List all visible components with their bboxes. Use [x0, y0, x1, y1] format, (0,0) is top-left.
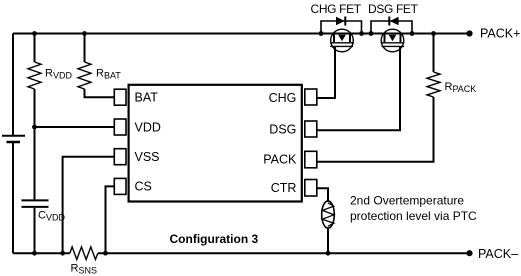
battery BT1 short plate	[7, 141, 21, 144]
diode D2 loop (DSG FET body diode)	[371, 21, 412, 34]
svg-text:CTR: CTR	[271, 181, 297, 195]
wire VDD pin	[35, 126, 115, 128]
wire CTR pin to PTC	[317, 188, 328, 201]
wire RVDD top lead	[34, 34, 36, 63]
wire left battery branch upper	[12, 34, 14, 136]
svg-text:CS: CS	[135, 180, 152, 194]
transistor Q1 CHG FET circle	[331, 29, 354, 52]
transistor Q1 substrate arrow	[338, 35, 346, 41]
wire bottom rail left of RSNS	[13, 252, 70, 254]
pin box VSS	[114, 149, 126, 165]
wire bottom rail right of RSNS	[98, 252, 470, 254]
node terminal dot PACK-	[466, 250, 472, 256]
svg-text:BAT: BAT	[135, 91, 159, 105]
node junction dot RPACK top	[431, 31, 436, 36]
resistor RVDD	[28, 62, 41, 89]
pin box PACK	[305, 151, 317, 168]
pin box DSG	[305, 121, 317, 137]
wire left battery branch lower	[12, 142, 14, 253]
wire CHG pin to CHG FET gate	[317, 46, 335, 98]
diode D1 loop (CHG FET body diode)	[321, 21, 362, 34]
capacitor CVDD top plate	[22, 199, 49, 201]
node junction dot RBAT top	[82, 31, 87, 36]
wire RBAT to BAT pin	[85, 89, 115, 97]
transistor Q2 gate line	[382, 45, 405, 47]
svg-text:CVDD: CVDD	[38, 209, 65, 222]
transistor Q1 drain bar	[333, 34, 335, 43]
transistor Q2 DSG FET circle	[381, 29, 404, 52]
node junction dot D2 left	[369, 31, 374, 36]
svg-text:CHG FET: CHG FET	[311, 2, 362, 16]
node junction dot VDD	[32, 125, 37, 130]
capacitor CVDD bottom plate	[22, 206, 49, 208]
wire RBAT top lead	[84, 34, 86, 63]
node junction dot D2 right	[410, 31, 415, 36]
pin box BAT	[114, 89, 126, 105]
svg-text:RBAT: RBAT	[96, 68, 121, 81]
node junction dot CVDD bottom	[32, 251, 37, 256]
diode D1 arrow	[336, 17, 345, 25]
wire RVDD bottom to VDD node	[34, 89, 36, 199]
transistor Q1 source bar	[349, 34, 351, 43]
wire PTC bottom lead	[327, 228, 329, 254]
svg-text:RPACK: RPACK	[445, 81, 477, 94]
wire PACK pin to RPACK	[317, 97, 434, 162]
wire RPACK top lead	[433, 34, 435, 73]
diode D1 cathode bar	[344, 17, 346, 26]
svg-text:DSG: DSG	[269, 122, 296, 136]
PTC zigzag	[322, 203, 334, 226]
svg-text:CHG: CHG	[269, 91, 297, 105]
svg-text:PACK–: PACK–	[478, 247, 518, 261]
resistor RSNS	[70, 247, 98, 260]
resistor RBAT	[78, 62, 91, 89]
pin box VDD	[114, 119, 126, 135]
pin box CS	[114, 178, 126, 194]
svg-text:PACK+: PACK+	[480, 27, 520, 41]
svg-text:RVDD: RVDD	[45, 68, 72, 81]
svg-text:PACK: PACK	[263, 152, 297, 166]
node junction dot VSS bottom	[60, 251, 65, 256]
wire CS pin	[106, 186, 115, 253]
node terminal dot PACK+	[466, 30, 472, 36]
transistor Q2 source bar	[400, 34, 402, 43]
diode D2 cathode bar	[388, 17, 390, 26]
battery BT1 long plate	[2, 135, 25, 137]
wire VSS pin	[63, 157, 115, 254]
PTC thermistor body	[322, 201, 335, 228]
transistor Q2 channel line	[381, 42, 405, 44]
transistor Q1 channel line	[330, 42, 354, 44]
transistor Q2 substrate arrow	[389, 35, 397, 41]
svg-text:protection level via PTC: protection level via PTC	[350, 209, 477, 223]
wire DSG pin to DSG FET gate	[317, 46, 400, 130]
wire CVDD bottom lead	[34, 208, 36, 253]
svg-text:VDD: VDD	[135, 120, 161, 134]
pin box CTR	[305, 180, 317, 197]
node junction dot PTC bottom	[326, 251, 331, 256]
node junction dot D1 left	[319, 31, 324, 36]
transistor Q1 gate line	[330, 45, 353, 47]
transistor Q2 drain bar	[384, 34, 386, 43]
svg-text:2nd Overtemperature: 2nd Overtemperature	[350, 193, 464, 207]
svg-text:RSNS: RSNS	[71, 262, 97, 275]
pin box CHG	[305, 89, 317, 105]
wire top rail PACK+	[13, 33, 470, 35]
resistor RPACK	[427, 72, 440, 97]
node junction dot D1 right	[359, 31, 364, 36]
op-amp U1 IC body	[129, 85, 302, 202]
node junction dot CS bottom	[103, 251, 108, 256]
svg-text:VSS: VSS	[135, 150, 160, 164]
diode D2 arrow	[390, 17, 399, 25]
svg-text:DSG FET: DSG FET	[368, 2, 419, 16]
svg-text:Configuration 3: Configuration 3	[170, 232, 259, 246]
node junction dot RVDD top	[32, 31, 37, 36]
